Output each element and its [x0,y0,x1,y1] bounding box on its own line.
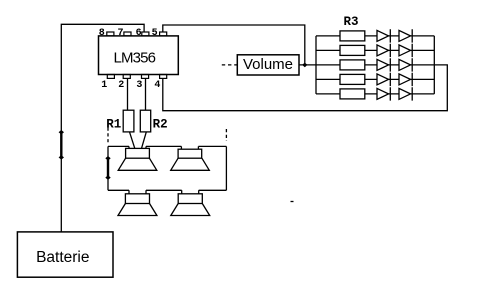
LED row 1: wire [316,35,434,37]
wire dashed volume input [222,64,238,66]
op-amp U1 LM356 body [99,36,179,75]
LED D3b [399,58,412,71]
resistor R3d [340,74,365,84]
node left bus lower junction [105,175,110,180]
resistor R3a [340,31,365,41]
resistor R3c [340,60,365,70]
svg-text:3: 3 [136,80,142,91]
node battery-wire upper junction [59,130,64,135]
LED D1a [377,29,390,42]
svg-text:7: 7 [117,28,123,39]
wire speaker bottom row [108,189,226,191]
wire right speaker bus [225,146,227,190]
LED D3a [377,58,390,71]
volume box [237,55,299,75]
svg-text:Batterie: Batterie [36,249,89,266]
pin 1 [107,75,114,79]
svg-text:1: 1 [101,80,107,91]
svg-text:8: 8 [99,28,105,39]
node volume junction [302,63,307,68]
LED D2b [399,44,412,57]
speaker LS3 [118,190,157,215]
wire pin 5 to volume junction [163,25,305,65]
wire pin 2 to R1 [127,78,129,110]
resistor R1 [123,110,134,132]
resistor R3e [340,89,365,99]
stray mark (small dash) [291,201,294,203]
wire thick segment between speaker-bus junctions [107,158,109,177]
resistor R3b [340,45,365,55]
LED D5a [377,87,390,100]
speaker LS2 [171,146,210,170]
svg-text:6: 6 [136,28,142,39]
node battery-wire lower junction [59,155,64,160]
svg-text:LM356: LM356 [113,49,155,66]
wire left speaker bus [107,146,109,190]
LED D1b [399,29,412,42]
LED D4b [399,73,412,86]
wire LED return to pin 4 [163,65,448,111]
pin 8 [107,32,114,36]
wire LED network right bus [433,36,435,94]
wire dashed above left speaker bus [107,128,109,145]
LED D4a [377,73,390,86]
battery B1 box [17,232,113,277]
svg-text:R2: R2 [153,117,168,131]
LED row 5: wire [316,93,434,95]
LED row 4: wire [316,78,434,80]
speaker LS1 [118,146,157,170]
node left bus upper junction [105,156,110,161]
resistor R2 [140,110,150,132]
wire volume output to LED bus (row 3 left) [299,64,316,66]
wire R1 to speaker 1 [130,132,135,149]
pin 6 [142,32,149,36]
LED D2a [377,44,390,57]
pin 2 [123,75,130,79]
svg-text:4: 4 [154,80,160,91]
pin 4 [160,75,167,79]
wire pin 3 to R2 [145,78,147,110]
LED D5b [399,87,412,100]
svg-text:Volume: Volume [243,56,293,73]
svg-text:R3: R3 [344,15,359,29]
pin 7 [124,32,131,36]
svg-text:2: 2 [118,80,124,91]
LED row 3: wire [316,64,434,66]
wire battery to pin 6 (top-left loop) [61,24,144,232]
LED row 2: wire [316,49,434,51]
wire speaker top row [108,145,226,147]
pin 5 [160,32,167,36]
speaker LS4 [171,190,210,215]
svg-text:5: 5 [152,28,158,39]
wire LED network left bus [315,36,317,94]
wire R2 to speaker 1 [142,132,147,149]
wire dashed above right speaker bus [225,129,227,141]
wire thick segment between junctions [60,132,62,157]
pin 3 [142,75,149,79]
